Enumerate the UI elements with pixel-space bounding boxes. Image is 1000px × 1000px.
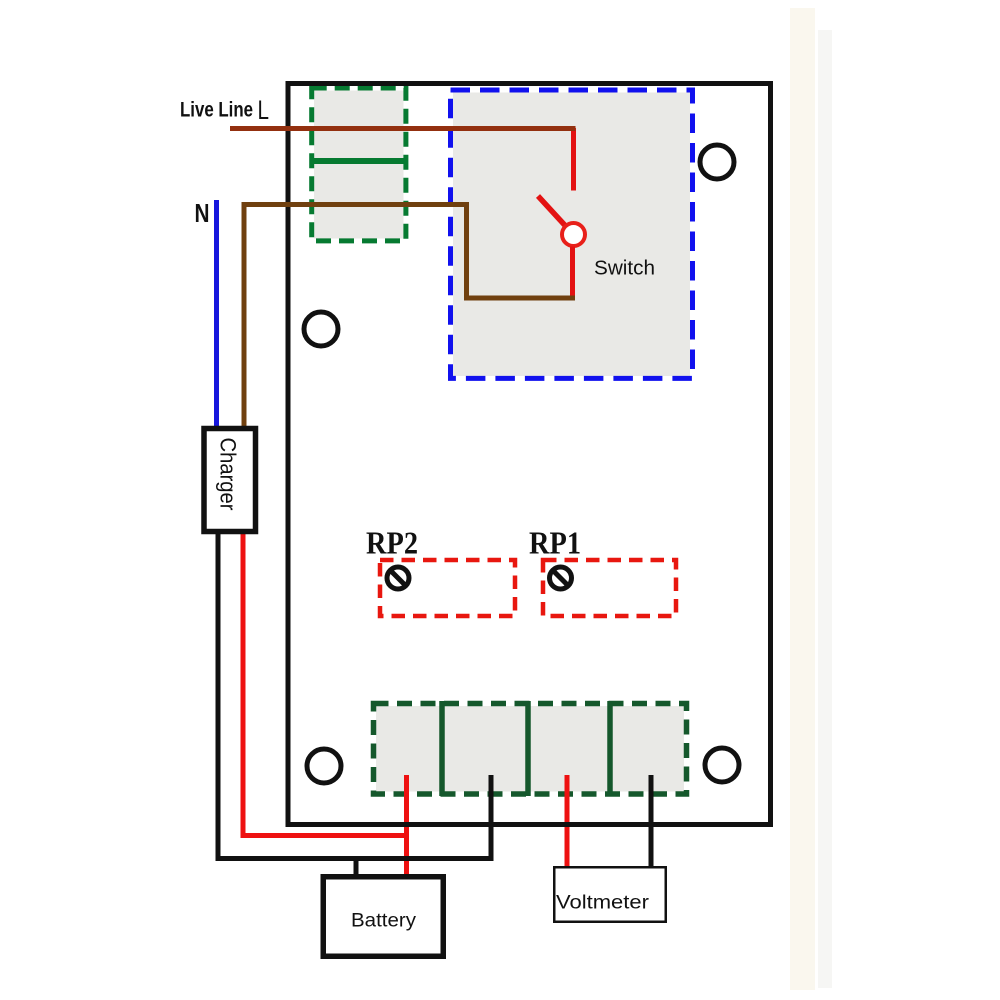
TB2 divider 3 (607, 701, 613, 796)
mounting hole top-right (700, 145, 734, 179)
wire red: TB2 terminal 3 to voltmeter (565, 775, 570, 867)
svg-text:Battery: Battery (351, 911, 417, 932)
terminal block TB1 divider (311, 158, 406, 164)
voltmeter M1 box (554, 867, 666, 922)
switch SW1 lever (538, 196, 566, 227)
switch enclosure (blue dashed) (451, 90, 693, 378)
RP1 screw (550, 567, 572, 589)
wire neutral (blue) (214, 200, 219, 427)
svg-text:Live Line: Live Line (180, 99, 253, 122)
potentiometer RP1 (red dashed) (543, 560, 676, 616)
wire brown from N corner to switch bottom (244, 205, 575, 429)
battery B1 box (323, 877, 443, 957)
PCB board outline (288, 84, 771, 825)
svg-text:L: L (258, 95, 270, 125)
svg-text:RP2: RP2 (366, 525, 418, 561)
wire black: TB2 terminal 4 to voltmeter (649, 775, 654, 867)
switch SW1 bottom lead (red) (570, 247, 575, 301)
terminal block TB2 (bottom green dashed, 4-way) (374, 704, 687, 795)
wire live line (brown) (230, 126, 576, 131)
switch SW1 pivot circle (562, 223, 585, 246)
TB2 divider 2 (525, 701, 531, 796)
PCB board fill (288, 84, 771, 825)
wire red: charger to red rail (243, 530, 407, 836)
charger U1 box (204, 429, 256, 532)
svg-text:Charger: Charger (216, 438, 241, 511)
wire black: charger to TB2 terminal 2 (218, 530, 491, 859)
mounting hole bottom-right (705, 748, 739, 782)
svg-text:N: N (195, 198, 210, 228)
TB2 divider 1 (439, 701, 445, 796)
wire black stub to battery (354, 859, 359, 877)
terminal block TB1 (top green dashed, 2-way) (312, 88, 406, 241)
switch SW1 top lead (red) (571, 128, 576, 191)
mounting hole bottom-left (307, 749, 341, 783)
potentiometer RP2 (red dashed) (380, 560, 515, 616)
wire red: TB2 terminal 1 to battery (404, 775, 409, 877)
mounting hole left (304, 312, 338, 346)
svg-text:Switch: Switch (594, 258, 655, 280)
RP2 screw (387, 567, 409, 589)
svg-text:RP1: RP1 (529, 525, 581, 561)
svg-text:Voltmeter: Voltmeter (556, 893, 650, 914)
